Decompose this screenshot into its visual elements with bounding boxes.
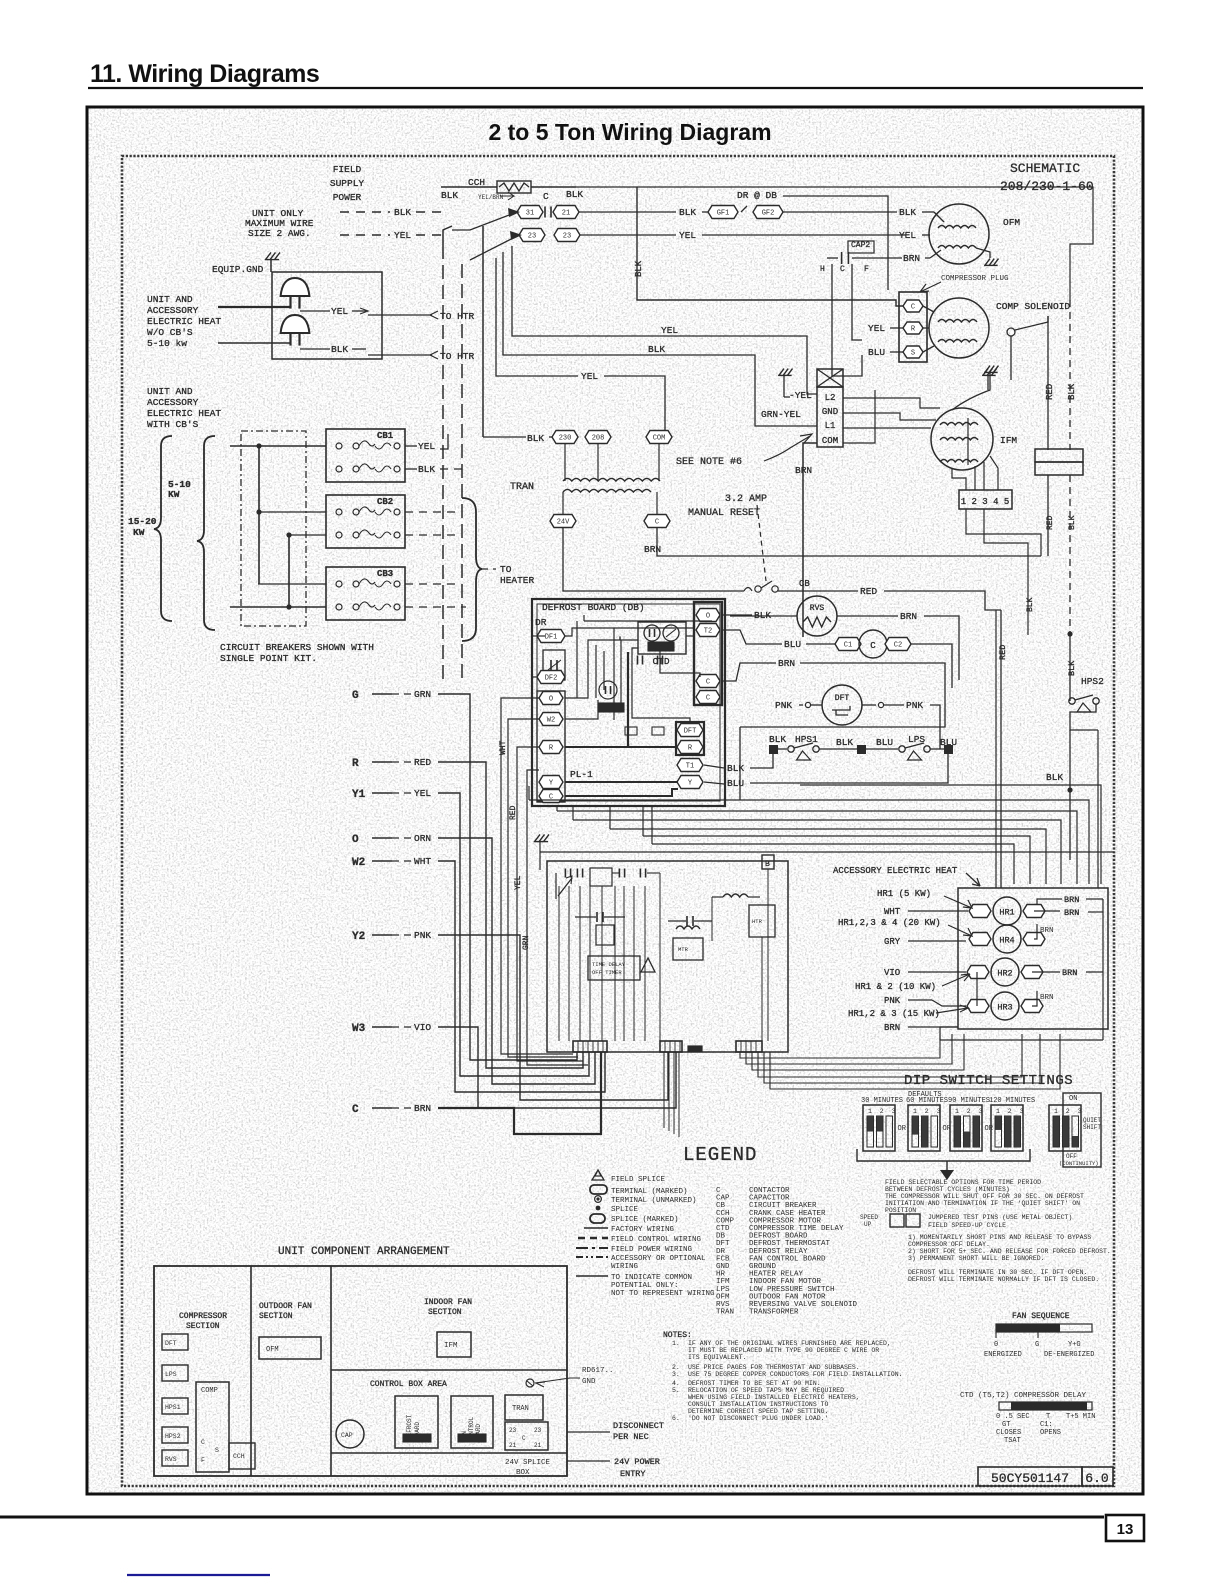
wire rail 6 bbox=[643, 836, 1030, 884]
capacitor CAP round bbox=[336, 1420, 364, 1448]
svg-text:CLOSES: CLOSES bbox=[996, 1429, 1021, 1437]
svg-text:HR1,2 & 3 (15 KW): HR1,2 & 3 (15 KW) bbox=[848, 1009, 940, 1019]
svg-text:NOT TO REPRESENT WIRING: NOT TO REPRESENT WIRING bbox=[611, 1290, 715, 1298]
svg-text:VIO: VIO bbox=[414, 1022, 431, 1033]
svg-text:POTENTIAL ONLY:: POTENTIAL ONLY: bbox=[611, 1282, 679, 1290]
wire BLK from O right bbox=[722, 614, 752, 616]
svg-text:3.: 3. bbox=[672, 1371, 680, 1378]
wire RED right bbox=[778, 590, 858, 592]
circuit breaker CB1 bbox=[326, 429, 405, 482]
bracket TO HEATER bbox=[462, 498, 482, 641]
svg-text:5-10 kw: 5-10 kw bbox=[147, 338, 187, 349]
wire BLK to 230 bbox=[483, 436, 526, 438]
vertical BLK wire right bbox=[1069, 300, 1071, 450]
svg-text:CAP: CAP bbox=[341, 1432, 353, 1439]
heater relay HR2 bbox=[967, 966, 989, 979]
compressor COMP box bbox=[196, 1382, 229, 1472]
svg-text:WITH CB'S: WITH CB'S bbox=[147, 419, 199, 430]
svg-text:ENTRY: ENTRY bbox=[620, 1469, 646, 1479]
svg-text:BRN: BRN bbox=[1064, 908, 1079, 918]
fan control board FCB box bbox=[547, 861, 788, 1052]
wires below PL3 right bbox=[740, 1034, 940, 1058]
svg-text:BLK: BLK bbox=[527, 433, 544, 444]
svg-text:DIP SWITCH SETTINGS: DIP SWITCH SETTINGS bbox=[904, 1073, 1073, 1089]
svg-text:FIELD POWER WIRING: FIELD POWER WIRING bbox=[611, 1246, 693, 1254]
svg-text:ACCESSORY: ACCESSORY bbox=[147, 305, 199, 316]
svg-text:RELOCATION OF SPEED TAPS MAY B: RELOCATION OF SPEED TAPS MAY BE REQUIRED bbox=[688, 1387, 844, 1394]
outer border frame bbox=[87, 107, 1143, 1494]
terminal DF1 bbox=[537, 630, 565, 643]
svg-text:1 2 3: 1 2 3 bbox=[1054, 1108, 1084, 1115]
small components bbox=[625, 727, 637, 735]
svg-text:L1: L1 bbox=[825, 421, 836, 431]
svg-text:FACTORY WIRING: FACTORY WIRING bbox=[611, 1226, 675, 1234]
svg-text:SECTION: SECTION bbox=[259, 1312, 293, 1321]
defrost board box (UCA) bbox=[395, 1396, 438, 1448]
svg-text:TERMINAL (UNMARKED): TERMINAL (UNMARKED) bbox=[611, 1197, 697, 1205]
UCA outer box bbox=[154, 1266, 567, 1476]
svg-text:OR: OR bbox=[898, 1125, 907, 1133]
terminal O left bbox=[539, 692, 563, 705]
svg-text:23: 23 bbox=[509, 1427, 517, 1434]
field splice triangle bbox=[641, 958, 655, 972]
wire BLK to GF1 bbox=[579, 211, 676, 213]
svg-text:24V: 24V bbox=[557, 519, 570, 527]
svg-text:DEFROST TIMER TO BE SET AT 90: DEFROST TIMER TO BE SET AT 90 MIN. bbox=[688, 1380, 821, 1387]
24v splice box bbox=[331, 1452, 567, 1454]
svg-text:YEL: YEL bbox=[331, 306, 348, 317]
svg-text:USE 75 DEGREE COPPER CONDUCTOR: USE 75 DEGREE COPPER CONDUCTORS FOR FIEL… bbox=[688, 1371, 903, 1378]
svg-text:120 MINUTES: 120 MINUTES bbox=[989, 1097, 1035, 1105]
wire COM right bbox=[843, 390, 875, 443]
svg-text:THE COMPRESSOR WILL SHUT OFF F: THE COMPRESSOR WILL SHUT OFF FOR 30 SEC.… bbox=[885, 1193, 1084, 1200]
junction box L2/GND/L1/COM bbox=[817, 369, 843, 387]
svg-text:RED: RED bbox=[414, 757, 431, 768]
disconnect per nec bbox=[567, 1431, 610, 1433]
wire rail 4 bbox=[573, 820, 1061, 884]
svg-text:HPS2: HPS2 bbox=[165, 1433, 181, 1440]
heater relay HR3 bbox=[967, 1000, 989, 1013]
legend symbol: splice bbox=[596, 1206, 601, 1211]
legend symbol: factory wiring bbox=[584, 1227, 608, 1229]
wires CB2/CB3 dashed to heater bbox=[405, 511, 460, 513]
svg-text:EQUIP.GND: EQUIP.GND bbox=[212, 264, 264, 275]
svg-text:CAP2: CAP2 bbox=[851, 241, 870, 250]
box LPS bbox=[162, 1365, 188, 1381]
svg-text:SPLICE (MARKED): SPLICE (MARKED) bbox=[611, 1216, 679, 1224]
svg-text:PNK: PNK bbox=[884, 996, 901, 1006]
wire BLU long rail bbox=[800, 785, 1101, 884]
svg-text:TO HTR: TO HTR bbox=[440, 311, 475, 322]
svg-text:ORN: ORN bbox=[414, 833, 431, 844]
terminal T1 bbox=[677, 759, 703, 772]
wire BLK long right bbox=[783, 196, 888, 290]
svg-text:TSAT: TSAT bbox=[1004, 1437, 1021, 1445]
svg-text:WIRING: WIRING bbox=[611, 1263, 639, 1271]
DFT terminal box bbox=[676, 722, 704, 755]
svg-text:W2: W2 bbox=[547, 717, 555, 725]
svg-text:TERMINAL (MARKED): TERMINAL (MARKED) bbox=[611, 1188, 688, 1196]
svg-text:HR2: HR2 bbox=[997, 969, 1012, 979]
wire BRN from C bbox=[722, 663, 776, 681]
svg-text:G: G bbox=[352, 690, 359, 702]
svg-text:C: C bbox=[706, 679, 710, 687]
svg-text:0 .5 SEC: 0 .5 SEC bbox=[996, 1413, 1030, 1421]
svg-text:ENERGIZED: ENERGIZED bbox=[984, 1351, 1022, 1359]
svg-text:GND: GND bbox=[582, 1378, 596, 1386]
svg-text:O: O bbox=[706, 613, 710, 621]
svg-text:CB3: CB3 bbox=[377, 569, 393, 579]
motor IFM bbox=[931, 408, 993, 470]
svg-text:LEGEND: LEGEND bbox=[683, 1144, 757, 1166]
svg-text:SECTION: SECTION bbox=[428, 1308, 462, 1317]
wires IFM to strip bbox=[952, 468, 966, 490]
wire GRN bundle bbox=[438, 694, 577, 1060]
terminal Y left bbox=[539, 776, 563, 789]
wire YEL to COM bbox=[496, 258, 578, 376]
ground OFM bbox=[976, 248, 990, 258]
svg-text:TIME DELAY: TIME DELAY bbox=[592, 961, 626, 968]
svg-text:DEFROST WILL TERMINATE IN 30 S: DEFROST WILL TERMINATE IN 30 SEC. IF DFT… bbox=[908, 1269, 1087, 1276]
svg-text:W2: W2 bbox=[352, 857, 365, 869]
relay box dark right bbox=[749, 905, 775, 937]
box HPS1 bbox=[162, 1398, 188, 1414]
terminal R left bbox=[539, 741, 563, 754]
legend symbol: field splice bbox=[592, 1170, 604, 1180]
svg-text:BRN: BRN bbox=[778, 658, 795, 669]
svg-text:VIO: VIO bbox=[884, 968, 900, 978]
heat box bottom wire bbox=[940, 1027, 1103, 1040]
accessory heat box bbox=[958, 888, 1108, 1029]
svg-text:'DO NOT DISCONNECT PLUG UNDER: 'DO NOT DISCONNECT PLUG UNDER LOAD.' bbox=[688, 1415, 828, 1422]
wire BRN bundle bbox=[438, 1052, 601, 1134]
svg-text:HR1 (5 KW): HR1 (5 KW) bbox=[877, 889, 931, 899]
svg-text:BRN: BRN bbox=[900, 611, 917, 622]
svg-text:TRANSFORMER: TRANSFORMER bbox=[749, 1309, 799, 1317]
field splice (heat) 1 bbox=[281, 278, 310, 296]
svg-text:CIRCUIT BREAKERS SHOWN WITH: CIRCUIT BREAKERS SHOWN WITH bbox=[220, 642, 374, 653]
svg-text:IF ANY OF THE ORIGINAL WIRES F: IF ANY OF THE ORIGINAL WIRES FURNISHED A… bbox=[688, 1340, 891, 1347]
svg-text:BLK: BLK bbox=[394, 207, 411, 218]
heat right wires BRN bbox=[1037, 899, 1062, 905]
svg-text:SIZE 2 AWG.: SIZE 2 AWG. bbox=[248, 228, 311, 239]
vertical feeders bbox=[258, 446, 260, 584]
connector PL3 bbox=[736, 1041, 762, 1052]
legend symbol: common potential bbox=[576, 1275, 608, 1277]
box HPS2 bbox=[162, 1427, 188, 1443]
svg-text:1.: 1. bbox=[672, 1340, 680, 1347]
timer box bbox=[596, 925, 614, 945]
terminal C2 right bbox=[696, 691, 720, 704]
svg-text:TO INDICATE COMMON: TO INDICATE COMMON bbox=[611, 1274, 692, 1282]
splice B top bbox=[762, 855, 774, 869]
defrost thermostat DFT bbox=[822, 685, 862, 725]
svg-text:IFM: IFM bbox=[1000, 435, 1017, 446]
svg-text:SUPPLY: SUPPLY bbox=[330, 178, 365, 189]
svg-text:2.: 2. bbox=[672, 1364, 680, 1371]
svg-text:OFF: OFF bbox=[1066, 1153, 1077, 1160]
comp solenoid node bbox=[1007, 328, 1015, 336]
tran box (UCA) bbox=[505, 1395, 543, 1420]
splice node 2 bbox=[857, 745, 866, 754]
svg-text:SCHEMATIC: SCHEMATIC bbox=[1010, 161, 1080, 176]
svg-text:BLK: BLK bbox=[1067, 660, 1077, 676]
svg-text:SPEED: SPEED bbox=[860, 1214, 878, 1221]
svg-text:DFT: DFT bbox=[165, 1340, 177, 1347]
svg-text:NOTES:: NOTES: bbox=[663, 1331, 692, 1340]
svg-text:13: 13 bbox=[1117, 1521, 1134, 1538]
ground above FCB bbox=[535, 834, 540, 841]
svg-text:WHT: WHT bbox=[499, 740, 508, 755]
svg-text:C1: C1 bbox=[844, 642, 852, 650]
coil left of CTD bbox=[619, 637, 621, 640]
wire YEL bundle bbox=[438, 793, 589, 1076]
svg-text:YEL: YEL bbox=[581, 371, 598, 382]
terminal O right bbox=[696, 609, 720, 622]
svg-text:HR4: HR4 bbox=[999, 936, 1014, 946]
svg-text:BLK: BLK bbox=[566, 189, 583, 200]
svg-text:W3: W3 bbox=[352, 1023, 366, 1035]
svg-text:OFM: OFM bbox=[1003, 217, 1020, 228]
svg-text:YEL: YEL bbox=[899, 230, 916, 241]
wires into CB boxes bbox=[230, 445, 326, 447]
svg-text:ACCESSORY: ACCESSORY bbox=[147, 397, 199, 408]
legend symbol: terminal marked bbox=[590, 1185, 607, 1194]
svg-text:CB: CB bbox=[799, 579, 810, 589]
wire BLK drop from C bbox=[637, 187, 903, 306]
svg-text:MTR: MTR bbox=[678, 946, 689, 953]
svg-text:60 MINUTES: 60 MINUTES bbox=[906, 1097, 948, 1105]
resistor block bbox=[1035, 449, 1083, 462]
svg-text:23: 23 bbox=[534, 1427, 542, 1434]
svg-text:UP: UP bbox=[864, 1221, 872, 1228]
svg-text:S: S bbox=[911, 350, 915, 358]
bottom rule bbox=[0, 1516, 1104, 1519]
svg-text:C: C bbox=[543, 191, 549, 202]
svg-text:HR1,2,3 & 4 (20 KW): HR1,2,3 & 4 (20 KW) bbox=[838, 918, 941, 928]
svg-text:YEL: YEL bbox=[679, 230, 696, 241]
wire YEL to L2 bbox=[512, 246, 817, 394]
wire COM-BRN down bbox=[803, 443, 817, 637]
svg-text:DR @ DB: DR @ DB bbox=[737, 190, 777, 201]
svg-text:2) SHORT FOR 5+ SEC. AND RELEA: 2) SHORT FOR 5+ SEC. AND RELEASE FOR FOR… bbox=[908, 1248, 1111, 1255]
svg-text:1 2 3 4 5: 1 2 3 4 5 bbox=[961, 497, 1010, 507]
svg-text:RED: RED bbox=[1046, 515, 1055, 530]
svg-text:RED: RED bbox=[509, 805, 518, 820]
svg-text:COMP: COMP bbox=[201, 1387, 218, 1395]
wire rail 5 bbox=[610, 829, 1046, 884]
svg-text:90 MINUTES: 90 MINUTES bbox=[948, 1097, 990, 1105]
svg-text:W/O CB'S: W/O CB'S bbox=[147, 327, 193, 338]
page number box bbox=[1106, 1515, 1144, 1541]
wire to heat box 2 bbox=[218, 342, 290, 344]
svg-text:SHIFT: SHIFT bbox=[1083, 1124, 1101, 1131]
svg-text:PNK: PNK bbox=[906, 700, 923, 711]
wire BLK from T1 bbox=[704, 765, 724, 768]
svg-text:FIELD SPLICE: FIELD SPLICE bbox=[611, 1176, 666, 1184]
svg-text:POWER: POWER bbox=[333, 192, 362, 203]
svg-text:GRN-YEL: GRN-YEL bbox=[761, 409, 801, 420]
vertical RED wire right bbox=[1047, 316, 1049, 450]
svg-text:T+5 MIN: T+5 MIN bbox=[1066, 1413, 1095, 1421]
svg-text:31: 31 bbox=[526, 210, 534, 218]
svg-text:T: T bbox=[1046, 1413, 1050, 1421]
svg-text:IT MUST BE REPLACED WITH TYPE: IT MUST BE REPLACED WITH TYPE 90 DEGREE … bbox=[688, 1347, 879, 1354]
svg-text:BLK: BLK bbox=[418, 464, 435, 475]
svg-text:BLU: BLU bbox=[876, 737, 893, 748]
svg-text:USE PRICE PAGES FOR THERMOSTAT: USE PRICE PAGES FOR THERMOSTAT AND SUBBA… bbox=[688, 1364, 860, 1371]
node split bbox=[1067, 631, 1072, 636]
inner schematic border bbox=[122, 156, 1114, 1486]
svg-text:LPS: LPS bbox=[165, 1371, 177, 1378]
wire rail 2 bbox=[529, 800, 1089, 884]
terminal COM bbox=[646, 431, 672, 444]
svg-text:BRN: BRN bbox=[1040, 927, 1054, 935]
svg-text:15-20: 15-20 bbox=[128, 516, 157, 527]
wire 24V down right bbox=[563, 528, 744, 591]
svg-text:G: G bbox=[1035, 1341, 1039, 1349]
contactor contact 23-23 bbox=[519, 229, 545, 242]
svg-text:11. Wiring Diagrams: 11. Wiring Diagrams bbox=[90, 60, 319, 88]
legend symbol: field power wiring bbox=[576, 1247, 608, 1249]
svg-text:C: C bbox=[870, 641, 876, 651]
blue footer line bbox=[127, 1574, 270, 1576]
box CCH bbox=[229, 1443, 255, 1469]
svg-text:MANUAL RESET: MANUAL RESET bbox=[688, 508, 760, 519]
svg-text:C: C bbox=[840, 265, 845, 274]
svg-text:R: R bbox=[352, 758, 359, 770]
splice bar bbox=[688, 1046, 702, 1051]
svg-text:24V SPLICE: 24V SPLICE bbox=[505, 1459, 551, 1467]
ground IFM bbox=[985, 366, 990, 373]
svg-text:HPS1: HPS1 bbox=[795, 734, 818, 745]
24v power entry bbox=[567, 1460, 610, 1462]
svg-text:BRN: BRN bbox=[903, 253, 920, 264]
svg-text:BRN: BRN bbox=[795, 465, 812, 476]
switch HPS1 bbox=[778, 748, 787, 750]
bracket 15-20 KW bbox=[154, 436, 172, 621]
svg-text:5.: 5. bbox=[672, 1387, 680, 1394]
svg-text:RD617..: RD617.. bbox=[582, 1367, 614, 1375]
svg-text:SEE NOTE #6: SEE NOTE #6 bbox=[676, 457, 742, 468]
svg-text:DF1: DF1 bbox=[545, 634, 558, 642]
svg-text:BRN: BRN bbox=[644, 544, 661, 555]
wire rail 8 bbox=[540, 851, 1114, 853]
svg-text:FAN SEQUENCE: FAN SEQUENCE bbox=[1012, 1312, 1070, 1321]
RED/BLK below block bbox=[1047, 475, 1049, 556]
svg-text:HR1: HR1 bbox=[999, 908, 1014, 918]
svg-text:FIELD CONTROL WIRING: FIELD CONTROL WIRING bbox=[611, 1236, 702, 1244]
wire YEL defrost feed bbox=[517, 747, 583, 1061]
svg-text:BRN: BRN bbox=[414, 1103, 431, 1114]
svg-text:HPS1: HPS1 bbox=[165, 1404, 181, 1411]
splice node 3 bbox=[944, 745, 953, 754]
svg-text:C: C bbox=[706, 695, 710, 703]
svg-text:Y2: Y2 bbox=[352, 931, 365, 943]
svg-text:ACCESSORY OR OPTIONAL: ACCESSORY OR OPTIONAL bbox=[611, 1255, 706, 1263]
svg-text:GRN: GRN bbox=[522, 935, 531, 950]
control box divider bbox=[331, 1369, 567, 1371]
wire BRN RVS bbox=[837, 615, 898, 617]
svg-text:23: 23 bbox=[563, 233, 571, 241]
svg-text:OR: OR bbox=[985, 1125, 994, 1133]
svg-text:30 MINUTES: 30 MINUTES bbox=[861, 1097, 903, 1105]
svg-text:CONTROL BOX AREA: CONTROL BOX AREA bbox=[370, 1380, 447, 1389]
svg-text:DE-ENERGIZED: DE-ENERGIZED bbox=[1044, 1351, 1094, 1359]
wire BLU from Y bbox=[704, 782, 724, 784]
solenoid RVS bbox=[797, 596, 837, 636]
svg-text:RED: RED bbox=[998, 645, 1008, 660]
contactor contact 31-21 bbox=[517, 206, 543, 219]
svg-text:BOX: BOX bbox=[516, 1469, 530, 1477]
capacitor mid2 FCB bbox=[686, 916, 688, 926]
resistor CCH bbox=[497, 181, 531, 193]
svg-text:DFT: DFT bbox=[835, 694, 850, 703]
svg-text:50CY501147: 50CY501147 bbox=[991, 1471, 1069, 1486]
svg-text:BLK: BLK bbox=[769, 734, 786, 745]
svg-text:RED: RED bbox=[860, 586, 877, 597]
svg-text:ELECTRIC HEAT: ELECTRIC HEAT bbox=[147, 408, 221, 419]
svg-text:COM: COM bbox=[653, 435, 666, 443]
svg-text:C1:: C1: bbox=[1040, 1421, 1053, 1429]
svg-text:QUIET: QUIET bbox=[1083, 1117, 1101, 1124]
ground comp bbox=[983, 369, 988, 376]
quiet shift dip block bbox=[1063, 1093, 1101, 1167]
svg-text:C: C bbox=[352, 1104, 359, 1116]
wires below PL4 bbox=[663, 1052, 665, 1128]
svg-text:COM: COM bbox=[822, 436, 838, 446]
svg-text:YEL: YEL bbox=[514, 875, 523, 890]
wires strip down bbox=[966, 509, 1041, 556]
wire GRN defrost feed bbox=[527, 770, 588, 1065]
svg-text:BRN: BRN bbox=[1040, 994, 1054, 1002]
svg-text:FIELD SPEED-UP CYCLE: FIELD SPEED-UP CYCLE bbox=[928, 1222, 1006, 1229]
svg-text:BLK: BLK bbox=[899, 207, 916, 218]
svg-text:4.: 4. bbox=[672, 1380, 680, 1387]
svg-text:B: B bbox=[765, 860, 770, 869]
svg-text:GF2: GF2 bbox=[762, 210, 775, 218]
svg-text:COMPRESSOR OFF DELAY.: COMPRESSOR OFF DELAY. bbox=[908, 1241, 990, 1248]
svg-text:BRN: BRN bbox=[1062, 968, 1077, 978]
wire YEL right row bbox=[580, 234, 676, 236]
bracket under dips bbox=[857, 1149, 1030, 1161]
connector PL2 bbox=[573, 1041, 607, 1052]
FCB internal verticals bbox=[558, 886, 560, 1041]
svg-text:PNK: PNK bbox=[775, 700, 792, 711]
right terminal column box bbox=[694, 602, 722, 705]
wire BLK to HTR bbox=[300, 348, 330, 350]
svg-text:TRAN: TRAN bbox=[510, 482, 534, 493]
svg-text:6.: 6. bbox=[672, 1415, 680, 1422]
field splice (heat) 2 bbox=[281, 315, 310, 333]
heater relay HR4 bbox=[969, 933, 991, 946]
svg-text:TRAN: TRAN bbox=[716, 1309, 734, 1317]
capacitor mid FCB bbox=[596, 912, 598, 922]
wire BLU row right bbox=[800, 754, 948, 783]
svg-text:C: C bbox=[522, 1435, 526, 1442]
svg-text:COMPRESSOR: COMPRESSOR bbox=[179, 1312, 227, 1321]
connector PL4 bbox=[660, 1041, 682, 1052]
svg-text:HEATER: HEATER bbox=[500, 575, 535, 586]
svg-text:SECTION: SECTION bbox=[186, 1322, 220, 1331]
svg-text:BLK: BLK bbox=[331, 344, 348, 355]
coil box mid bbox=[676, 926, 700, 929]
bracket 5-10 KW bbox=[197, 436, 215, 630]
wire RED defrost feed bbox=[508, 719, 578, 1057]
wire WHT defrost feed bbox=[501, 698, 573, 1054]
svg-text:BLK: BLK bbox=[836, 737, 853, 748]
svg-text:UNIT COMPONENT ARRANGEMENT: UNIT COMPONENT ARRANGEMENT bbox=[278, 1246, 450, 1258]
